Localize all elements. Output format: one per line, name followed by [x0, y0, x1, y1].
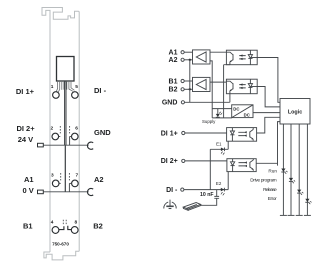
svg-text:7: 7: [75, 172, 78, 178]
input optocoupler OK3 (DI 1): [227, 128, 257, 142]
LED column Drive program: [290, 124, 292, 215]
wire OK3 LED cathode to E1: [227, 141, 229, 149]
svg-text:Run: Run: [268, 168, 277, 173]
svg-text:E1: E1: [216, 141, 222, 146]
wire DI- rail: [184, 189, 228, 191]
wire A2-B2-GND common: [189, 60, 191, 103]
svg-text:0 V: 0 V: [23, 186, 34, 195]
LED column Release: [298, 124, 300, 215]
LED Release: [297, 190, 303, 195]
connector block: [57, 57, 75, 82]
wire Supply LED branch: [217, 109, 219, 118]
svg-text:Error: Error: [268, 196, 277, 201]
carrier rail symbol (3D): [183, 203, 200, 211]
contact 1: [53, 92, 60, 99]
svg-text:3: 3: [51, 172, 54, 178]
0V rail wire: [43, 191, 88, 193]
wire E1 to DI- rail: [209, 149, 211, 189]
wire A2 to driver: [184, 59, 192, 61]
wire contact 6 to 24V rail: [69, 137, 71, 146]
wire OK1 emitter to GND rail: [224, 65, 230, 118]
svg-text:Supply: Supply: [202, 119, 216, 124]
wire driver U2 to optocoupler OK2: [210, 81, 226, 83]
contact 6: [72, 133, 79, 140]
wire DI1+ to OK3: [185, 132, 227, 134]
svg-text:4: 4: [51, 219, 54, 225]
24V rail clamp arc: [87, 142, 93, 149]
contact 5: [72, 92, 79, 99]
contact 6 stub and dashed link: [70, 136, 72, 138]
wire contact 7 to 0V rail: [68, 183, 70, 191]
optocoupler OK2 (B channel): [226, 79, 257, 94]
LED Run: [281, 169, 287, 174]
line driver U2 (B channel): [193, 77, 211, 91]
svg-text:DI 2+: DI 2+: [161, 158, 178, 165]
svg-text:B2: B2: [169, 87, 178, 94]
svg-text:750-670: 750-670: [52, 241, 69, 246]
svg-text:2: 2: [50, 126, 53, 132]
wire A1 to driver: [184, 51, 192, 53]
wire DC/DC output to Logic: [253, 112, 280, 114]
contact 8: [71, 227, 78, 234]
contact 7: [72, 180, 79, 187]
wire DI2+ to OK4: [185, 160, 227, 162]
relay contact between 4 and 8: [59, 226, 64, 229]
svg-text:Logic: Logic: [288, 110, 302, 116]
svg-text:24 V: 24 V: [18, 135, 33, 144]
svg-text:B2: B2: [93, 221, 103, 230]
input optocoupler OK4 (DI 2): [227, 159, 256, 172]
wire B2 to driver: [184, 88, 192, 90]
svg-text:DI 2+: DI 2+: [16, 124, 35, 133]
wire GND rail: [185, 101, 230, 103]
contact 2 stub and dashed link: [59, 136, 61, 138]
LED Drive program: [289, 178, 295, 183]
wire driver U1 to optocoupler OK1: [210, 51, 226, 53]
svg-text:1: 1: [51, 84, 54, 90]
svg-text:Drive program: Drive program: [250, 178, 276, 183]
svg-text:Release: Release: [263, 187, 277, 192]
wire OK4 output to Logic: [256, 122, 280, 166]
svg-text:DI 1+: DI 1+: [16, 87, 35, 96]
contact 3: [52, 180, 59, 187]
0V rail clamp arc: [87, 188, 93, 195]
0V feed rectangle terminal: [38, 190, 44, 194]
LED Supply: [216, 111, 223, 117]
module housing outline (side profile, 750-670 terminal block): [42, 8, 79, 260]
svg-text:GND: GND: [94, 128, 111, 137]
center bus wire (single to 0V rail): [64, 145, 66, 192]
wire Logic to input opto OK3: [257, 117, 280, 133]
svg-text:DC: DC: [233, 106, 239, 111]
contact 3 stub and dashed link: [59, 182, 61, 184]
wire OK2 emitter to GND rail: [229, 94, 231, 103]
wire B1 to driver: [184, 80, 192, 82]
optocoupler OK1 (A channel): [226, 50, 257, 64]
earth symbol in circle (protective earth): [164, 200, 176, 209]
wire OK4 LED cathode to E2/DI-: [227, 172, 229, 190]
svg-text:B1: B1: [169, 78, 178, 85]
svg-text:5: 5: [75, 84, 78, 90]
svg-text:A1: A1: [169, 50, 178, 57]
svg-text:DI -: DI -: [166, 187, 178, 194]
Logic block: [280, 99, 310, 125]
svg-text:A2: A2: [94, 175, 104, 184]
wire supply bus to DC/DC upper input: [212, 108, 232, 110]
svg-text:A2: A2: [169, 57, 178, 64]
contact 2: [52, 133, 59, 140]
LED Error: [305, 199, 311, 204]
svg-text:8: 8: [74, 219, 77, 225]
svg-text:A1: A1: [24, 175, 34, 184]
24V feed rectangle terminal: [38, 143, 44, 147]
svg-text:E2: E2: [216, 181, 222, 186]
wire bundle below connector: [56, 81, 74, 92]
svg-text:DI -: DI -: [94, 86, 107, 95]
svg-text:DI 1+: DI 1+: [161, 130, 178, 137]
wire supply bus to DC/DC lower input: [212, 117, 232, 119]
wire OK2 output to Logic: [257, 87, 280, 107]
svg-text:10 nF: 10 nF: [200, 192, 214, 198]
LED column Run: [282, 124, 284, 215]
LED column Error: [306, 124, 308, 215]
svg-text:6: 6: [75, 126, 78, 132]
line driver U1 (A channel): [193, 50, 211, 64]
contact 4: [52, 227, 59, 234]
node B2 junction dot: [189, 88, 191, 90]
svg-text:GND: GND: [162, 100, 178, 107]
wire driver U1 lower output down the supply bus: [210, 61, 212, 118]
svg-text:DC: DC: [244, 113, 250, 118]
24V rail wire: [43, 144, 88, 146]
contact 7 stub and dashed link: [69, 182, 71, 184]
svg-text:B1: B1: [23, 221, 33, 230]
DC/DC converter: [232, 105, 253, 118]
node A2 junction dot: [189, 59, 191, 61]
center bus wire (double): [65, 81, 66, 145]
wire OK1 output to Logic: [257, 58, 280, 103]
